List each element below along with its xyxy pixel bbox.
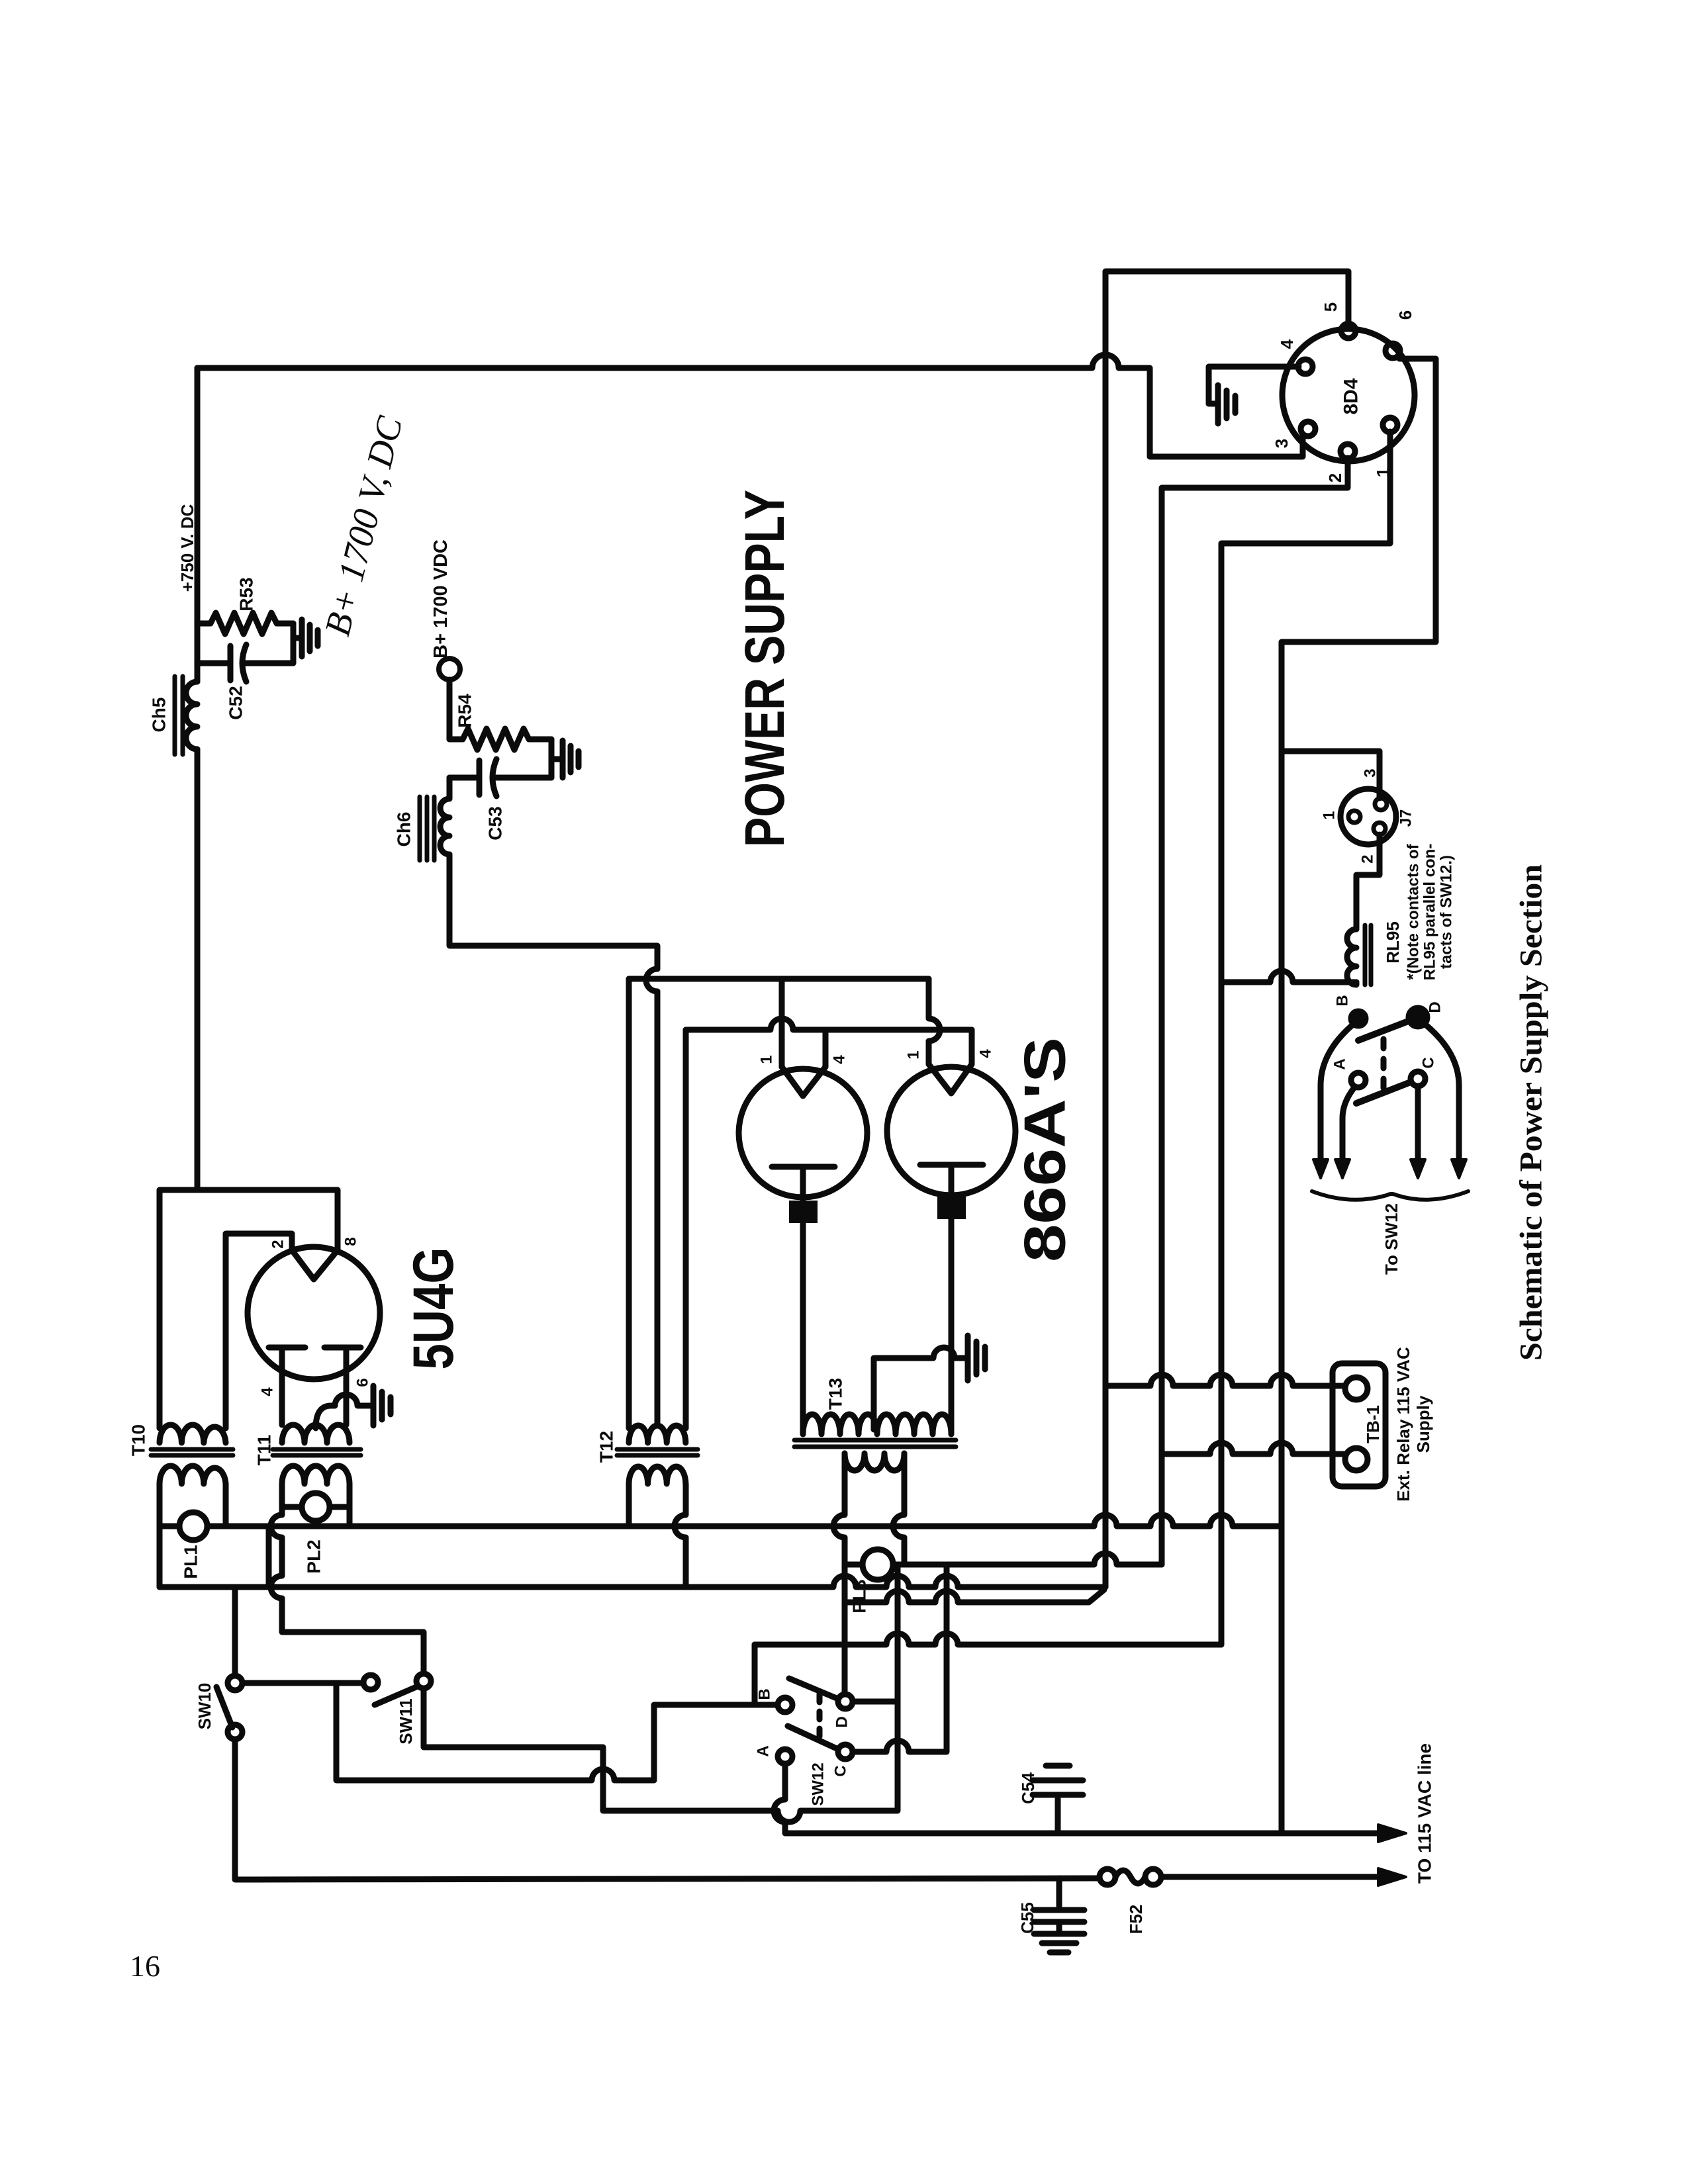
fuse F52 [1100,1869,1115,1885]
terminal B+ 1700 VDC [439,659,460,680]
capacitor C55 [1056,1878,1062,1906]
svg-text:tacts of SW12.): tacts of SW12.) [1438,855,1456,969]
pin 4 [1298,359,1313,374]
wire SW10 top to SW11 left [242,1680,363,1686]
wire PL1 box left edge (T10 secondary left lead down to bus B) [157,1484,163,1587]
plate bar tube2 [920,1165,983,1199]
wire SW12 D east to riser (up to PL3 junction) [853,1699,898,1705]
pin 5 [1341,324,1356,338]
wire pin 4 line to chassis ground [1209,367,1299,404]
contact detail: terminal A [1351,1073,1366,1087]
svg-text:4: 4 [831,1055,849,1064]
wire T10 secondary right lead [223,1484,229,1526]
transformer T11 core [273,1449,361,1455]
wire bus2 to TB-1 bottom terminal (hops V3,V4) [1162,1443,1345,1454]
wire left vertical +750V rail upper [195,368,201,682]
wire tube1 pin1 stub [779,979,785,1067]
svg-text:J7: J7 [1397,809,1415,827]
transformer T11 secondary winding [282,1466,350,1484]
wire bus B to SW10 [232,1587,238,1676]
svg-text:To SW12: To SW12 [1382,1203,1401,1275]
svg-text:866A'S: 866A'S [1012,1037,1078,1262]
wire Ch6 down to T12 center tap [449,854,657,969]
wire B 866 pin-4 bus (hops over tube1 pin1 stub) [686,1019,972,1030]
wire tube2 cathode down to T13 [949,1219,955,1434]
J7 pin 2 [1374,823,1385,835]
svg-text:R53: R53 [236,577,257,611]
pilot lamp PL2 with secondary leads [282,1484,350,1526]
wire top bus from +750V corner to socket area (hops over pin-5 drop) [197,355,1303,457]
svg-text:D: D [833,1716,851,1727]
svg-text:C: C [1420,1057,1438,1068]
arrowhead 115VAC lower [1378,1868,1406,1886]
svg-text:C55: C55 [1017,1902,1037,1934]
svg-text:B+ 1700 V, DC: B+ 1700 V, DC [316,412,410,640]
svg-text:RL95 parallel con-: RL95 parallel con- [1421,844,1439,981]
transformer T10 primary winding [160,1425,226,1443]
pin 1 [1383,418,1397,432]
svg-text:POWER SUPPLY: POWER SUPPLY [733,490,796,847]
switch SW12 contact B [778,1698,792,1712]
pilot lamp PL1 [179,1512,207,1540]
plate bar right (pin 6) [324,1347,361,1425]
wire T11 center tap to ground (hops over pin 6 stem) [316,1394,371,1428]
svg-text:T13: T13 [825,1378,846,1410]
wire A west drop to T12 [626,979,632,1428]
svg-text:SW11: SW11 [396,1698,416,1744]
switch SW12 contact C [838,1745,853,1759]
wire T13 secondary right lead (jog at busA, ends at busC) [893,1453,904,1565]
svg-text:TO 115 VAC line: TO 115 VAC line [1415,1743,1435,1884]
contact detail: lead from B with arrow [1321,1024,1353,1167]
transformer T12 primary winding [629,1426,686,1443]
svg-text:4: 4 [259,1387,277,1396]
tube 866A no.2 envelope [887,1067,1015,1195]
svg-text:C53: C53 [485,806,506,840]
relay core RL95 [1365,925,1371,985]
wire SW12 C east (hops D riser) up to bus C [853,1565,947,1752]
svg-text:1: 1 [1321,811,1338,819]
wire bus1 to TB-1 top terminal (hops V2,V3,V4) [1105,1375,1345,1386]
svg-text:PL2: PL2 [304,1539,324,1573]
svg-text:+750 V. DC: +750 V. DC [177,504,197,592]
wire V4 to J7 pin 3 [1282,751,1380,798]
svg-text:T11: T11 [254,1435,275,1466]
svg-text:SW10: SW10 [195,1683,214,1730]
wire riser from B line to L2483 [752,1645,758,1705]
wire tube2 pin4 drop [969,1030,975,1064]
svg-text:4: 4 [977,1049,995,1058]
contact detail: blade D [1358,1021,1410,1040]
J7 pin 3 [1375,798,1387,810]
capacitor C54 [1055,1799,1061,1833]
wire L2421 (T13 left lead to bus B east corner) [845,1590,1104,1602]
wire L2483 (SW12 B feed to V3) with hops [755,1633,1221,1645]
choke Ch5 [186,682,197,749]
wire junction between SW10 and SW11 down to L2690 [336,1683,778,1780]
svg-text:F52: F52 [1126,1905,1146,1934]
wire filament second line (T10 right lead / pin 2) [226,1234,292,1428]
wire fuse to arrow (115VAC lower) [1161,1874,1390,1880]
wire SW10 to bottom 115VAC line [235,1739,1100,1880]
wire A 866 pin-1 bus [629,976,929,982]
wire hop over 866 plate bus [646,969,657,991]
svg-text:T12: T12 [596,1431,617,1463]
wire PL2 left lead down to SW11 (S-hops across buses) [271,1507,424,1674]
svg-text:6: 6 [1395,310,1415,320]
svg-text:2: 2 [269,1240,287,1248]
wire pin 1 down, west, and down V3 [1221,432,1390,1645]
transformer T10 core [151,1449,233,1455]
switch SW12 contact A [778,1749,792,1764]
filament V tube1 [782,1067,825,1096]
ground (R53/C52) [293,619,318,657]
svg-text:8: 8 [342,1237,360,1246]
wire T13 center tap to ground (hops over tube2 cathode wire) [874,1347,965,1430]
ground (C55) [1034,1934,1084,1952]
plate bar left (pin 4) [269,1347,305,1425]
contact detail: terminal C [1411,1071,1425,1086]
svg-text:A: A [1331,1058,1349,1069]
svg-text:A: A [755,1745,773,1756]
capacitor C53 [449,775,551,781]
tube 866A no.1 envelope [739,1069,867,1197]
svg-text:B+ 1700 VDC: B+ 1700 VDC [430,539,451,659]
svg-text:PL1: PL1 [181,1545,201,1578]
contact detail: lead from D with arrow [1425,1024,1459,1167]
svg-text:5U4G: 5U4G [402,1248,465,1370]
relay coil RL95 [1347,929,1356,985]
wire SW11 right contact down and east to L2736 riser [424,1565,898,1822]
svg-text:3: 3 [1362,768,1380,777]
svg-text:C: C [832,1765,850,1776]
svg-text:Schematic of Power Supply Sect: Schematic of Power Supply Section [1514,864,1549,1361]
J7 pin 1 [1348,811,1360,823]
contact detail: blade C [1356,1082,1411,1103]
transformer T13 secondary winding [845,1453,904,1471]
transformer T10 secondary winding [160,1466,226,1484]
transformer T12 core [617,1449,698,1455]
wire R53/C52 right link [291,623,297,663]
svg-text:8D4: 8D4 [1340,378,1362,414]
wire tube2 pin1 drop with hop over wire B [929,979,940,1064]
terminal block TB-1 [1333,1363,1385,1486]
svg-text:T10: T10 [128,1424,149,1456]
switch SW11 [363,1675,378,1690]
pin 2 [1340,444,1355,459]
plate bar tube1 [772,1167,835,1203]
wire B+ terminal down [447,680,453,739]
resistor R54 [449,729,551,750]
wire T12 secondary right lead (hops busA) [675,1484,686,1587]
svg-text:16: 16 [130,1949,160,1983]
transformer T11 primary winding [282,1425,350,1443]
wire J7 pin 2 to relay coil RL95 [1356,835,1380,929]
wire pin 2 line to V2 drop [1162,458,1348,1565]
svg-text:6: 6 [354,1378,372,1387]
choke Ch6 [440,778,449,854]
wire PL1 box right edge [266,1526,272,1587]
contact detail: terminal B [1351,1011,1366,1026]
pin 6 [1385,343,1400,358]
wire T13 secondary left lead down to SW12 contact D (jog at busA, PL3 tap, T at L2421) [833,1453,845,1694]
svg-text:*(Note contacts of: *(Note contacts of [1405,843,1423,979]
svg-text:TB-1: TB-1 [1363,1405,1383,1443]
connector J7 [1340,789,1396,844]
svg-text:R54: R54 [455,694,475,728]
svg-text:1: 1 [758,1055,776,1064]
svg-text:1: 1 [905,1050,923,1059]
plate base blob tube1 [789,1201,818,1223]
tube socket 8D4 [1282,329,1415,461]
transformer T13 core [794,1440,956,1447]
svg-text:5: 5 [1321,302,1340,312]
contact detail: dashed coupling [1381,1039,1387,1089]
switch SW12 blade bottom [788,1726,838,1749]
transformer T13 primary winding (top, 8 loops) [803,1414,951,1434]
filament V tube2 [929,1064,972,1093]
wire pin 6 over to V4 drop [1282,359,1436,1833]
contact detail: lead from A with arrow [1342,1087,1355,1167]
wire to T12 winding center tap [655,991,661,1423]
switch SW10 [228,1676,242,1690]
svg-text:Ch6: Ch6 [394,812,414,847]
svg-text:RL95: RL95 [1383,921,1403,964]
contact detail: lead from C with arrow [1415,1086,1421,1167]
switch SW12 dashed coupling [817,1694,823,1737]
svg-text:B: B [756,1688,774,1700]
svg-text:Ext. Relay 115 VAC: Ext. Relay 115 VAC [1393,1347,1413,1502]
switch SW12 blade top [789,1678,838,1699]
ground (T11 center tap) [373,1386,391,1426]
pilot lamp PL3 [845,1562,898,1568]
bus A (115V line upper bus) with PL1 lamp inline and hops over V1,V2,V3 [160,1515,1282,1526]
pin 3 [1301,422,1315,436]
svg-text:B: B [1334,995,1352,1006]
svg-text:2: 2 [1359,854,1377,863]
svg-text:Ch5: Ch5 [149,698,169,733]
filament V 5U4G [292,1250,338,1279]
svg-text:Supply: Supply [1413,1395,1433,1453]
switch SW12 contact D [838,1694,853,1709]
arrowhead 115VAC upper [1378,1825,1406,1842]
plate base blob tube2 [937,1197,966,1219]
svg-text:3: 3 [1272,439,1291,448]
resistor R53 [197,613,293,634]
wire R54/C53 right link [549,739,555,778]
ground (T13 center tap) [968,1336,985,1381]
wire tube1 pin4 stub [823,1030,829,1067]
wire pin 5 to V1 drop [1105,271,1348,1587]
svg-text:D: D [1427,1001,1444,1013]
wire tube1 cathode down to T13 [800,1223,806,1434]
transformer T12 secondary winding [629,1467,686,1484]
wire B west drop to T12 [683,1030,689,1428]
tube 5U4G envelope [248,1247,380,1379]
svg-text:C54: C54 [1018,1772,1038,1804]
capacitor C52 [197,660,293,666]
ground (R54/C53) [551,741,579,778]
svg-text:2: 2 [1325,473,1345,482]
bus B with hops over SW12 feed verticals, ends at V1 [160,1576,1105,1587]
wire SW12 A down to 115VAC upper line (jog at L2736) [774,1764,1390,1833]
wire RL95 to V3 (hops over V4) [1221,971,1356,982]
wire filament top line (T10 left lead / +750 tap / pin 8) [160,1190,338,1428]
svg-text:4: 4 [1277,339,1297,349]
bus C (PL3 right to V2) with hop over V1 [898,1553,1162,1565]
contact detail: brace [1312,1191,1468,1200]
svg-text:C52: C52 [226,686,246,719]
ground (socket pin 4) [1209,385,1235,424]
contact detail: terminal D [1409,1008,1427,1026]
svg-text:SW12: SW12 [810,1762,827,1805]
wire left vertical +750V rail lower [195,749,201,1190]
wire T12 secondary left lead [626,1484,632,1526]
